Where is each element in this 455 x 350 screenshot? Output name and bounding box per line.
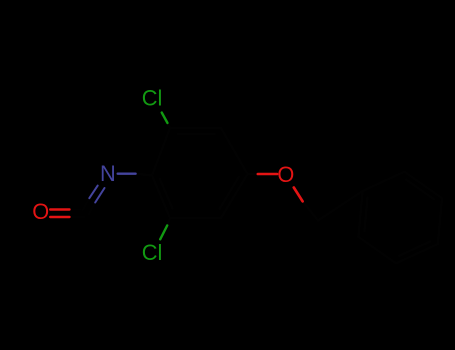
benzyl CH2 to phenyl bond: [318, 191, 363, 221]
svg-text:Cl: Cl: [142, 86, 163, 111]
phenyl ring (right, dark): [358, 172, 442, 264]
Cl top bond carbon half: [168, 123, 171, 128]
O-CH2 bond carbon half: [303, 201, 318, 220]
aromatic inner line top: [178, 133, 215, 135]
chlorine Cl (top) bond: [162, 113, 168, 124]
chlorine Cl (bottom) bond: [160, 226, 167, 240]
Cl bottom bond carbon half: [167, 218, 170, 226]
ring-O bond (red half): [258, 173, 277, 176]
isocyanate C=N dark halves: [83, 198, 90, 210]
svg-text:O: O: [277, 162, 294, 187]
aromatic inner line left-lower: [160, 179, 173, 209]
O-CH2 bond (red half): [294, 188, 303, 202]
O right bond carbon half (ring side): [248, 173, 258, 175]
dark halves of substituent bonds: [136, 123, 318, 226]
svg-text:N: N: [100, 161, 116, 186]
N-ring bond (blue half): [118, 172, 136, 174]
N=C double bond (blue halves): [89, 186, 97, 199]
svg-text:O: O: [32, 199, 49, 224]
O=C double bond (red): [50, 208, 69, 210]
benzene ring (central, dark carbon skeleton): [152, 128, 248, 218]
isocyanate C: O=C dark halves: [70, 208, 85, 210]
aromatic inner line right-lower: [220, 177, 239, 209]
N-ring bond carbon half: [136, 174, 152, 176]
svg-text:Cl: Cl: [142, 240, 163, 265]
